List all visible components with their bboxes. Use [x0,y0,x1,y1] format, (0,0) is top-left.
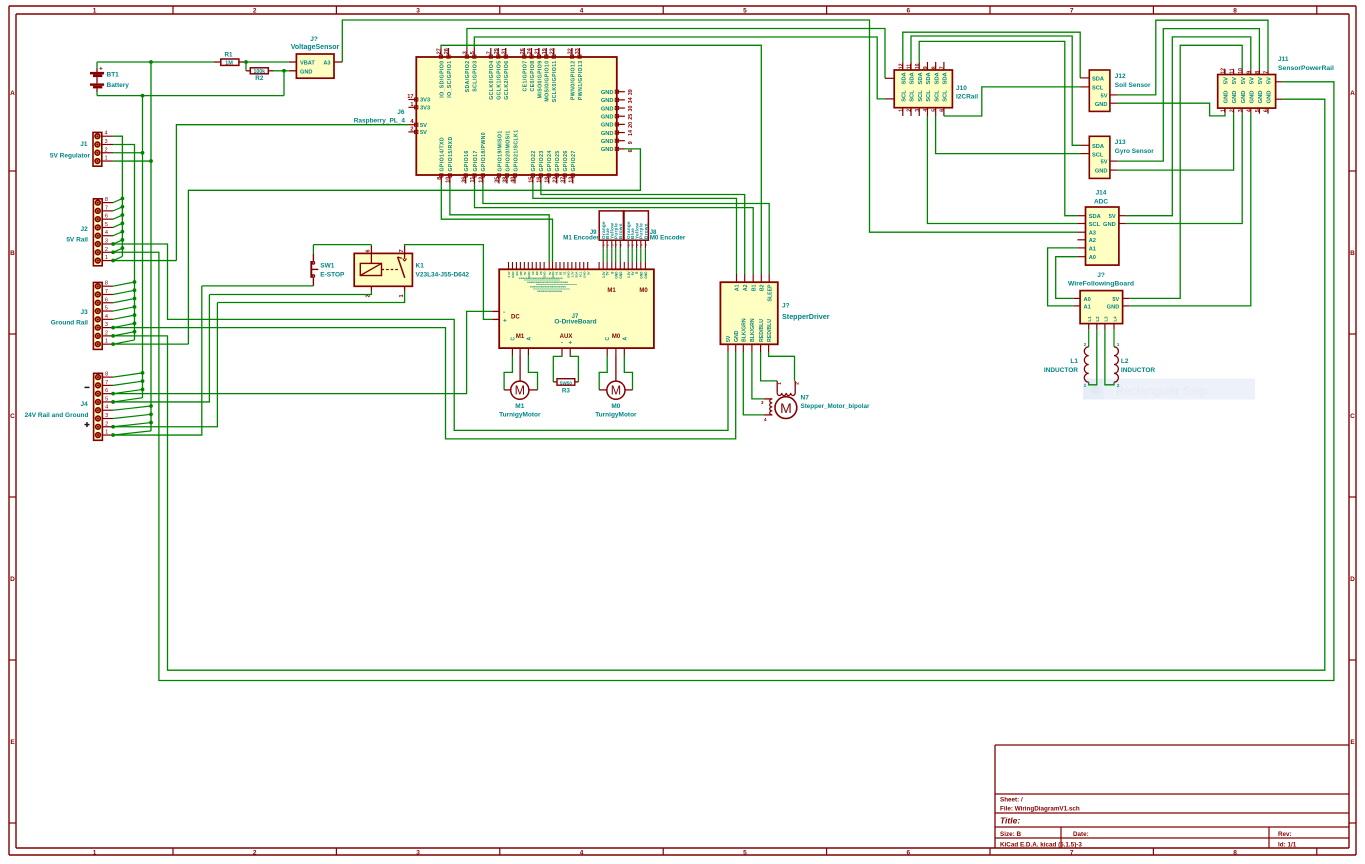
wire J10.6 to J12 SCL [944,87,1080,116]
wire K1 pin7 to Q-DriveBoard DC+ [405,245,493,320]
wire J14 GND to J11 pin3 [1126,114,1243,224]
svg-text:5V: 5V [420,123,427,129]
svg-text:BLK/GRN: BLK/GRN [742,318,748,342]
svg-text:M0: M0 [611,403,620,410]
svg-text:N7: N7 [801,394,810,401]
svg-text:11: 11 [470,177,476,183]
svg-text:Title:: Title: [1000,816,1020,826]
svg-text:1: 1 [899,109,905,112]
svg-text:2: 2 [795,382,801,385]
svg-text:GCLK0/GPIO4: GCLK0/GPIO4 [489,61,495,100]
svg-text:SDA: SDA [934,71,940,84]
svg-text:10: 10 [1238,68,1244,74]
svg-text:Brown: Brown [643,223,648,239]
svg-text:PWN0/GPIO12: PWN0/GPIO12 [570,61,576,101]
svg-text:6: 6 [906,849,910,856]
svg-text:2: 2 [253,849,257,856]
svg-text:SW1: SW1 [320,263,334,270]
J4 diagonal wires pins 4-1 to bus x=151 [113,406,151,410]
snip overlay [1083,379,1255,400]
svg-text:18: 18 [545,177,551,183]
svg-text:39: 39 [628,89,634,95]
svg-text:3: 3 [105,413,108,419]
svg-text:12: 12 [1221,68,1227,74]
inductor L2 [1114,329,1155,389]
svg-text:Id: 1/1: Id: 1/1 [1278,841,1297,848]
svg-text:L1: L1 [1070,358,1078,365]
connector J12 Soil Sensor [1080,70,1151,111]
svg-text:8: 8 [931,66,937,69]
switch SW1 E-STOP [311,245,345,286]
svg-text:1: 1 [1117,342,1120,348]
svg-text:oeoeoeoeoeoeoe: oeoeoeoeoeoeoe [537,289,563,293]
svg-text:J11: J11 [1278,56,1289,63]
svg-text:M: M [780,400,792,416]
svg-text:GND: GND [1232,91,1238,104]
J2 diagonal wires to bus [113,199,122,203]
svg-text:GPIO23: GPIO23 [539,150,545,171]
svg-text:SDA: SDA [918,71,924,84]
svg-text:3: 3 [1238,109,1244,112]
J7 top-right pin stubs (encoder headers) [599,262,648,294]
J6 bottom pins [437,130,577,184]
relay K1 V23L34-J55-D642 [354,246,469,298]
svg-text:17: 17 [407,94,413,100]
svg-text:M1 Encoder: M1 Encoder [563,235,599,242]
svg-text:+: + [503,317,507,324]
svg-text:29: 29 [494,48,500,54]
wire J10.12 to J12 SDA [903,32,1080,78]
svg-text:INDUCTOR: INDUCTOR [1044,367,1078,374]
svg-text:2: 2 [410,126,413,132]
svg-text:A1: A1 [735,284,741,291]
svg-text:1: 1 [105,430,108,436]
svg-text:5: 5 [1255,109,1261,112]
svg-text:SensorPowerRail: SensorPowerRail [1278,65,1334,72]
svg-text:32: 32 [568,48,574,54]
svg-text:40: 40 [511,177,517,183]
svg-text:Brown: Brown [618,223,623,239]
wire bus down from top rail at x=151 [150,62,152,431]
svg-text:SDA: SDA [1092,77,1104,83]
svg-text:8: 8 [437,177,443,180]
svg-text:24: 24 [527,48,533,54]
connector J11 SensorPowerRail [1218,56,1334,114]
svg-text:C: C [1350,413,1355,420]
svg-text:3: 3 [761,400,764,406]
svg-text:SDA: SDA [910,71,916,84]
svg-text:M0 Encoder: M0 Encoder [650,235,686,242]
svg-text:DC: DC [511,314,520,320]
svg-text:GND: GND [1249,91,1255,104]
wire GND pin6 to J3 pin1 [188,149,640,344]
svg-text:SDA: SDA [1092,144,1104,150]
wire K1 pin2 to J4.5 [209,291,371,295]
svg-text:8: 8 [1233,8,1237,15]
svg-text:J13: J13 [1115,139,1126,146]
svg-text:V23L34-J55-D642: V23L34-J55-D642 [416,272,470,279]
svg-text:GND: GND [1258,91,1264,104]
wire A3 to ADC A3 long route [342,20,1077,232]
svg-text:2: 2 [105,147,108,153]
wire SW1 to J4.1 [202,285,314,287]
svg-text:GND: GND [734,330,740,342]
svg-text:7: 7 [487,51,493,54]
J7 bottom pins M1 AUX M0 [510,334,628,356]
svg-text:B1: B1 [751,284,757,291]
svg-text:33: 33 [575,48,581,54]
J6 right GND pins [601,89,634,153]
svg-text:5: 5 [470,51,476,54]
svg-text:1: 1 [410,102,413,108]
svg-text:J4: J4 [80,401,88,408]
svg-text:2: 2 [105,330,108,336]
svg-text:SCL: SCL [926,90,932,102]
wire K1 pin6 up to SW1 rail [370,245,372,246]
svg-text:7: 7 [105,380,108,386]
svg-text:1: 1 [399,294,405,297]
svg-text:34: 34 [628,97,634,103]
svg-text:GND: GND [1103,222,1116,228]
wire J13 5V to J11 pin8 [1118,29,1260,162]
svg-text:SDA: SDA [926,71,932,84]
svg-text:A: A [10,90,15,97]
svg-text:J?: J? [782,303,790,310]
svg-text:5V: 5V [1112,297,1119,303]
connector J8 M0 Encoder [624,211,686,248]
svg-text:E-STOP: E-STOP [320,272,345,279]
svg-text:6: 6 [906,8,910,15]
svg-text:GND: GND [1224,91,1230,104]
svg-text:4: 4 [105,131,108,137]
wire SDA/GPIO2 pin3 to I2CRail SDA [467,29,885,79]
svg-text:StepperDriver: StepperDriver [782,312,830,321]
svg-text:SCLK0/GPIO11: SCLK0/GPIO11 [552,61,558,103]
svg-text:SLEEP: SLEEP [767,284,773,302]
svg-text:8: 8 [1233,849,1237,856]
wire J3.2 to SensorPowerRail GND (bottom loop) [113,99,1325,670]
svg-text:5V: 5V [1109,214,1116,220]
svg-text:5V: 5V [1249,77,1255,84]
svg-text:J?: J? [310,36,318,43]
svg-text:GND: GND [1107,305,1120,311]
wire J10.10 to J14 SDA [919,41,1077,215]
wire SCL/GPIO3 pin5 to I2CRail SCL [474,37,885,99]
wire GPIO14 pin8 to Q-DriveBoard [441,184,552,263]
svg-text:6: 6 [105,388,108,394]
svg-text:GND: GND [601,147,614,153]
svg-text:3: 3 [416,8,420,15]
svg-text:A2: A2 [743,284,749,291]
wire SW1 top to K1 coil pin6 [313,244,371,246]
svg-text:R2: R2 [255,75,264,82]
svg-text:A3: A3 [1089,231,1096,237]
connector J13 Gyro Sensor [1080,136,1154,178]
wire J2.2 to SensorPowerRail 5V (bottom loop) [113,82,1334,681]
svg-text:GPIO21/SCLK1: GPIO21/SCLK1 [513,130,519,172]
svg-text:J12: J12 [1115,73,1126,80]
svg-text:GPIO17: GPIO17 [473,150,479,171]
resistor R3 5W50 on AUX [553,356,578,395]
resistor R2 [246,68,274,82]
svg-text:8: 8 [105,281,108,287]
connector J? VoltageSensor [289,36,343,78]
motor M0 TurnigyMotor [595,356,637,419]
svg-text:J?: J? [1097,272,1105,279]
svg-text:7: 7 [1264,71,1270,74]
svg-text:A: A [1350,90,1355,97]
svg-text:B: B [10,250,15,257]
svg-text:2: 2 [105,247,108,253]
wire GPIO18 pin12 to StepperDriver SLEEP [483,184,769,275]
svg-text:Gyro Sensor: Gyro Sensor [1115,148,1154,155]
wire R1 out down to R2 [245,62,247,71]
svg-text:+: + [99,66,103,73]
svg-text:3: 3 [416,849,420,856]
motor N7 Stepper_Motor_bipolar [761,381,870,423]
svg-text:M: M [515,384,525,398]
svg-text:INDUCTOR: INDUCTOR [1121,367,1155,374]
svg-text:1: 1 [1221,109,1227,112]
J4 diagonal wires pins 8-5 to bus x=142.5 [113,373,142,377]
svg-text:GPIO18/PWN0: GPIO18/PWN0 [481,132,487,172]
board J? WireFollowingBoard [1068,272,1134,329]
J7 DC pins [492,309,520,325]
svg-text:M1: M1 [516,334,525,340]
svg-text:MISO0/GPIO9: MISO0/GPIO9 [537,61,543,99]
svg-text:4: 4 [1247,109,1253,112]
svg-text:AUX: AUX [560,334,573,340]
svg-text:1M: 1M [225,61,233,67]
svg-text:5V: 5V [1267,77,1273,84]
svg-text:23: 23 [550,48,556,54]
wire J14 A1 to WireFollowingBoard A1 [1048,248,1078,306]
svg-text:J10: J10 [956,85,967,92]
svg-text:2: 2 [253,8,257,15]
svg-text:8: 8 [105,372,108,378]
wire J12 5V to J11 pin7 [1118,20,1268,95]
svg-text:3: 3 [463,51,469,54]
svg-text:3: 3 [105,239,108,245]
svg-text:5V Regulator: 5V Regulator [50,152,91,159]
svg-text:12: 12 [479,177,485,183]
svg-text:SDA/GPIO2: SDA/GPIO2 [465,61,471,93]
svg-text:I2CRail: I2CRail [956,94,978,101]
svg-text:GND: GND [601,139,614,145]
svg-text:SCL: SCL [901,90,907,102]
svg-text:5V: 5V [726,335,732,342]
wire J1.3 to GND bus [113,144,134,339]
svg-text:7: 7 [105,205,108,211]
wire J1.2 to battery-bus [113,152,142,154]
svg-text:1: 1 [93,8,97,15]
svg-text:2: 2 [105,421,108,427]
svg-text:Battery: Battery [107,82,130,89]
svg-text:5V: 5V [420,130,427,136]
svg-text:1: 1 [105,339,108,345]
svg-text:6: 6 [105,297,108,303]
svg-text:L2: L2 [1121,358,1129,365]
J6 left pins [407,94,430,136]
svg-text:Ground Rail: Ground Rail [51,319,88,326]
J7 top-left pin stubs [507,262,590,293]
svg-text:22: 22 [553,177,559,183]
svg-text:10: 10 [446,177,452,183]
svg-text:Soil Sensor: Soil Sensor [1115,82,1151,89]
svg-text:6: 6 [1264,109,1270,112]
svg-text:A1: A1 [1084,305,1091,311]
title block [995,745,1349,848]
svg-text:GND: GND [1267,91,1273,104]
svg-text:B2: B2 [760,284,766,291]
svg-text:SCL/GPIO3: SCL/GPIO3 [473,61,479,92]
svg-text:SDA: SDA [943,71,949,84]
svg-text:2: 2 [907,109,913,112]
svg-text:2: 2 [1084,342,1087,348]
svg-text:GND: GND [601,131,614,137]
svg-text:9: 9 [923,66,929,69]
svg-text:11: 11 [1229,68,1235,74]
svg-text:GPIO27: GPIO27 [571,150,577,171]
svg-text:8: 8 [105,197,108,203]
svg-text:L3: L3 [1103,316,1108,322]
svg-text:1: 1 [105,255,108,261]
svg-text:C: C [605,337,611,341]
wire GPIO23 pin16 to StepperDriver A2 [541,184,745,275]
svg-text:2: 2 [1117,383,1120,389]
svg-text:SCL: SCL [910,90,916,102]
svg-text:A3: A3 [323,60,330,66]
svg-text:VBAT: VBAT [300,60,315,66]
svg-text:5V: 5V [1258,77,1264,84]
svg-text:L2: L2 [1095,316,1100,322]
wire battery- bottom rail [97,95,284,97]
connector J1 5V Regulator [50,131,113,167]
svg-text:SCL: SCL [1092,86,1104,92]
svg-text:GCLK1/GPIO5: GCLK1/GPIO5 [497,61,503,100]
svg-text:L1: L1 [1087,316,1092,322]
svg-text:SCL: SCL [1089,222,1101,228]
svg-text:RED/BLU: RED/BLU [759,319,765,342]
svg-text:R1: R1 [224,51,233,58]
svg-text:35: 35 [495,177,501,183]
svg-text:MOSI0/GPIO10: MOSI0/GPIO10 [545,61,551,102]
svg-text:6: 6 [366,249,372,252]
svg-text:SCL: SCL [934,90,940,102]
connector J9 M1 Encoder [563,211,623,248]
resistor R1 [214,51,244,66]
J3 diagonal wires to bus [113,282,134,286]
board J7 O-DriveBoard [499,269,654,348]
wire J10.11 to J13 SDA [911,36,1080,145]
wire J14 5V to J11 pin9 [1126,37,1251,216]
svg-text:GPIO15/RXD: GPIO15/RXD [448,136,454,171]
svg-text:12: 12 [899,63,905,69]
svg-text:5: 5 [931,109,937,112]
svg-text:5: 5 [743,8,747,15]
svg-text:GND: GND [601,98,614,104]
svg-text:5W50: 5W50 [560,380,572,385]
wire J2.3 to StepperDriver 5V via Q-Drive DC area [113,244,728,430]
wire WireFollowingBoard 5V to J11 pin10 [1129,45,1242,298]
wire J10.5 to J13 SCL [936,116,1081,154]
svg-text:PWN1/GPIO13: PWN1/GPIO13 [578,61,584,101]
svg-text:GPIO20/MOSI1: GPIO20/MOSI1 [505,130,511,171]
connector J2 5V Rail [66,197,113,266]
svg-text:A0: A0 [1089,255,1096,261]
svg-text:5V Rail: 5V Rail [66,236,88,243]
svg-text:SCL: SCL [918,90,924,102]
svg-text:7: 7 [105,289,108,295]
svg-text:1: 1 [777,382,783,385]
wire GPIO17 pin11 to StepperDriver B1 [475,184,754,275]
svg-text:5: 5 [105,222,108,228]
svg-text:7: 7 [1070,849,1074,856]
inductor L1 [1044,329,1089,389]
svg-text:SDA: SDA [1089,214,1101,220]
svg-text:5: 5 [743,849,747,856]
svg-text:30: 30 [628,106,634,112]
wire J3.3 to StepperDriver GND [113,328,736,439]
svg-text:ADC: ADC [1094,198,1108,205]
svg-text:IO_SD/GPIO0: IO_SD/GPIO0 [439,61,445,98]
svg-text:GND: GND [601,123,614,129]
IC J6 Raspberry_Pi_4 [416,57,617,175]
svg-text:36: 36 [461,177,467,183]
connector J14 ADC [1077,190,1125,266]
svg-text:A: A [622,337,628,341]
wire K1 pin1 to J4.2 [217,291,404,303]
svg-text:9: 9 [628,141,634,144]
svg-text:File: WiringDiagramV1.sch: File: WiringDiagramV1.sch [1000,806,1080,813]
svg-text:7: 7 [940,66,946,69]
svg-text:20: 20 [628,122,634,128]
battery BT1 [90,62,129,96]
svg-text:-: - [561,341,563,347]
svg-text:R3: R3 [562,387,571,394]
svg-text:K1: K1 [416,263,425,270]
svg-text:A0: A0 [1084,297,1091,303]
wire bus down from bottom rail at x=142.5 [142,96,144,398]
svg-text:TurnigyMotor: TurnigyMotor [595,411,637,418]
svg-text:GPIO22: GPIO22 [531,150,537,171]
svg-text:CE1/GPIO7: CE1/GPIO7 [523,61,529,92]
svg-text:L4: L4 [1112,316,1117,322]
svg-text:O-DriveBoard: O-DriveBoard [554,318,596,325]
svg-text:A: A [526,337,532,341]
svg-text:TurnigyMotor: TurnigyMotor [499,411,541,418]
svg-text:4: 4 [105,405,108,411]
svg-text:GCLK2/GPIO6: GCLK2/GPIO6 [504,61,510,100]
svg-text:GPIO25: GPIO25 [555,150,561,171]
svg-text:5: 5 [105,396,108,402]
svg-text:GND: GND [601,90,614,96]
svg-text:19: 19 [542,48,548,54]
svg-text:A1: A1 [1089,246,1096,252]
svg-text:D: D [1350,576,1355,583]
junction dots battery rails [149,60,153,64]
svg-text:37: 37 [561,177,567,183]
svg-text:GPIO26: GPIO26 [563,150,569,171]
wire StepperDriver RED/BLU to coil pin2 [769,352,795,381]
svg-text:31: 31 [502,48,508,54]
svg-text:BT1: BT1 [107,72,120,79]
svg-text:3V3: 3V3 [420,106,430,112]
connector J10 I2CRail [885,62,978,116]
svg-text:GND: GND [614,271,618,279]
wire J4.6 to Q-DriveBoard DC- [113,311,492,393]
wires encoders to J7 board [602,248,604,262]
